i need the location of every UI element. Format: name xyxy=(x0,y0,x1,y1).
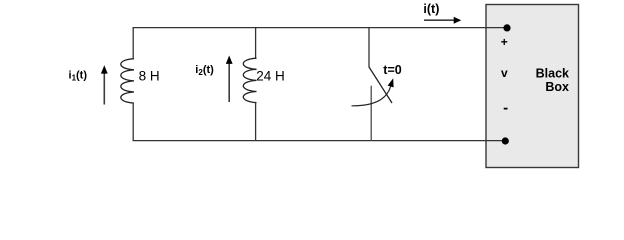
wire L1 bottom lead xyxy=(132,103,134,141)
wire switch top lead xyxy=(368,27,370,67)
node terminal top dot xyxy=(503,24,510,31)
svg-text:i1(t): i1(t) xyxy=(69,69,88,82)
switch S1 arc arrowhead xyxy=(388,78,394,87)
svg-text:-: - xyxy=(503,99,508,116)
wire L2 bottom lead xyxy=(255,103,257,142)
svg-text:i2(t): i2(t) xyxy=(195,64,214,77)
switch S1 blade xyxy=(369,67,392,103)
switch S1 actuation arc xyxy=(352,87,391,106)
black box U1 xyxy=(486,5,579,168)
svg-text:24 H: 24 H xyxy=(256,68,285,83)
wire L1 top lead xyxy=(132,27,134,59)
arrow i2 xyxy=(228,63,230,102)
svg-text:i(t): i(t) xyxy=(423,2,439,16)
node terminal bottom dot xyxy=(502,137,509,144)
svg-text:v: v xyxy=(501,66,508,80)
wire switch bottom lead xyxy=(370,86,372,141)
wire L2 top lead xyxy=(255,27,257,58)
arrow i1 xyxy=(103,73,105,105)
svg-text:t=0: t=0 xyxy=(383,63,401,77)
inductor L2 24H coil xyxy=(243,58,256,102)
svg-text:+: + xyxy=(501,35,508,49)
wire bottom xyxy=(133,140,506,142)
svg-text:Box: Box xyxy=(545,80,569,94)
arrow i(t) xyxy=(424,19,455,21)
svg-text:Black: Black xyxy=(536,66,569,80)
wire top xyxy=(133,27,507,29)
svg-text:8 H: 8 H xyxy=(139,68,160,83)
inductor L1 8H coil xyxy=(121,59,134,103)
